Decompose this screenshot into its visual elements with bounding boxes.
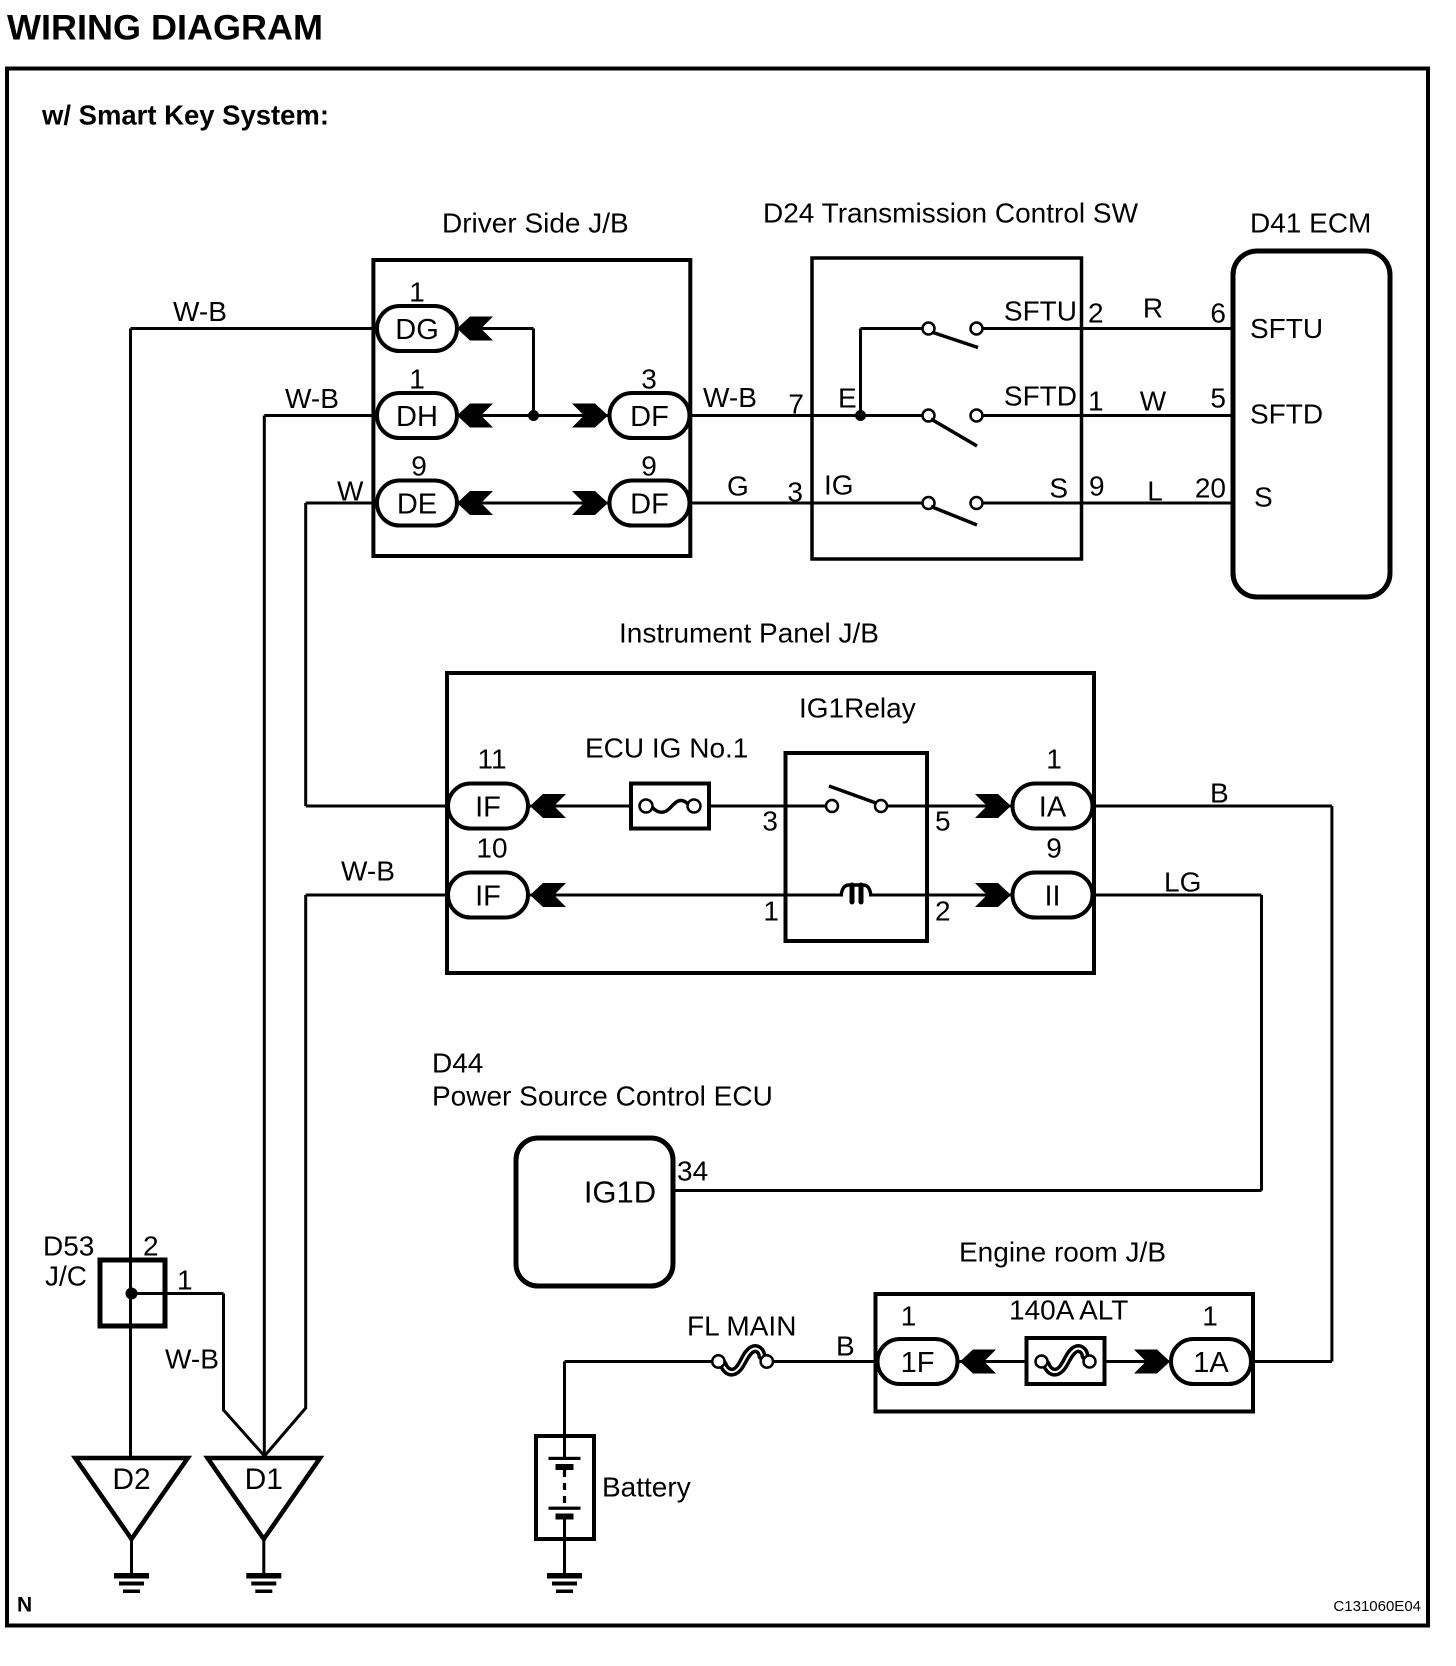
svg-text:1: 1 xyxy=(1046,743,1062,774)
svg-text:2: 2 xyxy=(1088,297,1104,328)
svg-text:II: II xyxy=(1044,881,1060,913)
svg-text:J/C: J/C xyxy=(45,1260,87,1291)
svg-text:w/ Smart Key System:: w/ Smart Key System: xyxy=(41,100,329,131)
svg-text:R: R xyxy=(1143,292,1163,323)
svg-text:WIRING DIAGRAM: WIRING DIAGRAM xyxy=(7,9,323,48)
svg-text:1F: 1F xyxy=(901,1347,935,1379)
svg-text:W-B: W-B xyxy=(165,1343,219,1374)
svg-text:20: 20 xyxy=(1195,472,1226,503)
svg-text:IF: IF xyxy=(475,881,501,913)
svg-text:D44: D44 xyxy=(432,1047,483,1078)
svg-text:9: 9 xyxy=(641,450,657,481)
svg-text:W-B: W-B xyxy=(285,383,339,414)
svg-text:5: 5 xyxy=(1210,382,1226,413)
svg-text:6: 6 xyxy=(1210,297,1226,328)
svg-text:ECU IG No.1: ECU IG No.1 xyxy=(585,732,748,763)
svg-text:B: B xyxy=(836,1330,855,1361)
svg-text:DF: DF xyxy=(630,489,669,521)
svg-text:SFTU: SFTU xyxy=(1004,295,1077,326)
svg-text:L: L xyxy=(1147,475,1163,506)
svg-text:1: 1 xyxy=(1202,1300,1218,1331)
svg-text:Instrument Panel J/B: Instrument Panel J/B xyxy=(619,617,879,648)
svg-text:Power Source Control ECU: Power Source Control ECU xyxy=(432,1080,773,1111)
svg-text:D24 Transmission Control SW: D24 Transmission Control SW xyxy=(763,197,1139,228)
svg-text:10: 10 xyxy=(476,832,507,863)
svg-text:LG: LG xyxy=(1164,866,1201,897)
svg-text:D53: D53 xyxy=(43,1230,94,1261)
svg-text:Engine room J/B: Engine room J/B xyxy=(959,1236,1166,1267)
svg-text:C131060E04: C131060E04 xyxy=(1333,1598,1421,1615)
svg-text:W: W xyxy=(337,475,364,506)
svg-text:DE: DE xyxy=(397,489,437,521)
svg-text:3: 3 xyxy=(641,363,657,394)
svg-text:11: 11 xyxy=(477,743,506,774)
svg-text:SFTU: SFTU xyxy=(1250,313,1323,344)
svg-text:3: 3 xyxy=(762,805,778,836)
svg-text:DF: DF xyxy=(630,401,669,433)
svg-text:IF: IF xyxy=(475,792,501,824)
svg-text:S: S xyxy=(1254,481,1273,512)
svg-text:5: 5 xyxy=(935,805,951,836)
svg-text:IG1Relay: IG1Relay xyxy=(799,692,916,723)
svg-text:FL MAIN: FL MAIN xyxy=(687,1310,796,1341)
svg-text:1: 1 xyxy=(901,1300,917,1331)
svg-text:Battery: Battery xyxy=(602,1471,691,1502)
svg-text:1: 1 xyxy=(177,1264,193,1295)
svg-text:34: 34 xyxy=(677,1155,708,1186)
svg-text:B: B xyxy=(1210,777,1229,808)
svg-text:SFTD: SFTD xyxy=(1004,380,1077,411)
svg-text:2: 2 xyxy=(935,895,951,926)
svg-text:DH: DH xyxy=(396,401,438,433)
svg-text:3: 3 xyxy=(787,476,803,507)
svg-text:1: 1 xyxy=(409,363,425,394)
svg-text:IG1D: IG1D xyxy=(584,1175,656,1210)
svg-text:1: 1 xyxy=(763,895,779,926)
svg-text:W-B: W-B xyxy=(341,855,395,886)
svg-text:D1: D1 xyxy=(245,1463,283,1496)
svg-text:Driver Side J/B: Driver Side J/B xyxy=(442,207,629,238)
svg-text:IA: IA xyxy=(1039,792,1067,824)
svg-text:2: 2 xyxy=(143,1230,159,1261)
svg-text:140A ALT: 140A ALT xyxy=(1009,1294,1128,1325)
svg-text:W: W xyxy=(1140,385,1167,416)
svg-text:D2: D2 xyxy=(112,1463,150,1496)
svg-text:G: G xyxy=(727,470,749,501)
svg-text:D41 ECM: D41 ECM xyxy=(1250,207,1371,238)
svg-text:1: 1 xyxy=(409,276,425,307)
svg-text:N: N xyxy=(17,1593,32,1616)
svg-text:9: 9 xyxy=(1089,470,1105,501)
svg-text:1A: 1A xyxy=(1193,1347,1229,1379)
svg-text:W-B: W-B xyxy=(703,382,757,413)
svg-text:1: 1 xyxy=(1088,385,1104,416)
svg-text:SFTD: SFTD xyxy=(1250,398,1323,429)
svg-text:S: S xyxy=(1049,472,1068,503)
svg-text:9: 9 xyxy=(1046,832,1062,863)
svg-text:E: E xyxy=(838,382,857,413)
svg-text:7: 7 xyxy=(788,388,804,419)
svg-text:DG: DG xyxy=(395,314,439,346)
svg-text:W-B: W-B xyxy=(173,296,227,327)
svg-text:9: 9 xyxy=(411,450,427,481)
svg-text:IG: IG xyxy=(824,469,854,500)
